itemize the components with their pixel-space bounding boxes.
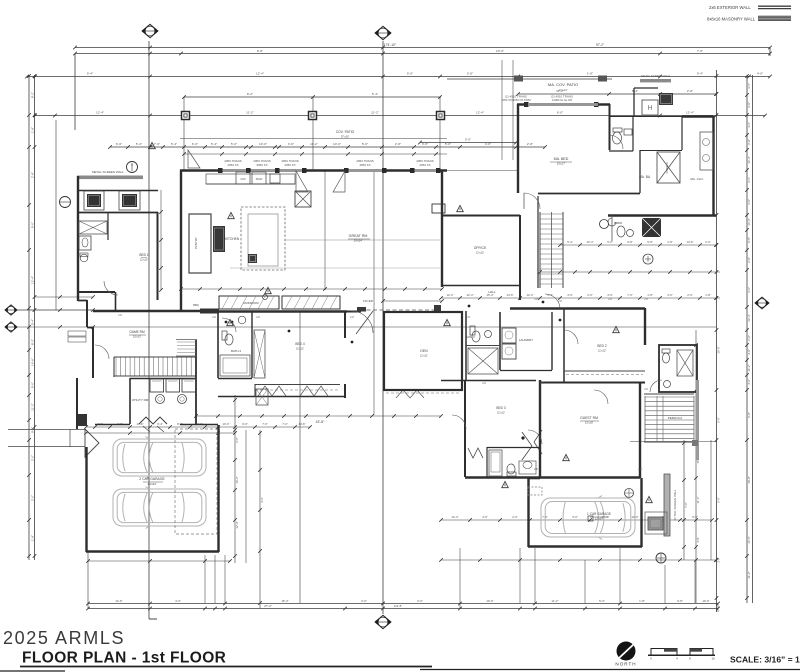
svg-text:6'-0": 6'-0" (747, 139, 751, 145)
svg-text:MA. BED: MA. BED (554, 157, 569, 161)
svg-text:11'-2": 11'-2" (246, 111, 254, 115)
svg-text:6'-0": 6'-0" (192, 142, 198, 146)
svg-text:3'-0": 3'-0" (417, 599, 423, 603)
svg-text:4'-6": 4'-6" (260, 497, 264, 503)
svg-text:9'-8": 9'-8" (677, 599, 683, 603)
svg-text:5'-0": 5'-0" (231, 142, 237, 146)
svg-text:7'-0": 7'-0" (627, 293, 633, 297)
svg-text:174'-10": 174'-10" (384, 43, 397, 47)
svg-text:12'-4": 12'-4" (747, 156, 751, 163)
svg-text:2-8: 2-8 (212, 315, 216, 319)
svg-text:2'-0": 2'-0" (31, 495, 35, 501)
svg-text:37'x10': 37'x10' (341, 135, 350, 139)
svg-text:5'-0": 5'-0" (692, 515, 698, 519)
svg-text:12'-4": 12'-4" (686, 111, 694, 115)
svg-text:12'-4": 12'-4" (476, 111, 484, 115)
svg-text:9'-8": 9'-8" (257, 49, 263, 53)
svg-text:LAUNDRY: LAUNDRY (519, 338, 533, 342)
svg-text:12'-4": 12'-4" (586, 240, 593, 244)
svg-text:7'-0": 7'-0" (684, 502, 688, 508)
svg-text:FOYER: FOYER (363, 299, 373, 303)
svg-text:11'x12': 11'x12' (296, 347, 304, 351)
svg-text:1'-8": 1'-8" (639, 599, 645, 603)
svg-text:11'-2": 11'-2" (747, 364, 751, 371)
svg-text:2'-0": 2'-0" (687, 293, 693, 297)
svg-text:36 TALL SCREEN WALL: 36 TALL SCREEN WALL (673, 489, 677, 520)
svg-text:H: H (647, 105, 652, 112)
svg-text:3'-6": 3'-6" (422, 142, 428, 146)
svg-text:6'-0": 6'-0" (235, 437, 239, 443)
svg-text:KITCHEN: KITCHEN (225, 237, 240, 241)
svg-text:12'-4": 12'-4" (96, 111, 104, 115)
svg-text:4'-0": 4'-0" (747, 349, 751, 355)
svg-text:2-8: 2-8 (540, 381, 544, 385)
svg-text:1'-8": 1'-8" (31, 535, 35, 541)
svg-text:(2) 4010 TRANS: (2) 4010 TRANS (551, 95, 573, 99)
svg-text:15'-4": 15'-4" (281, 599, 288, 603)
svg-text:METAL SCREEN WALL: METAL SCREEN WALL (641, 74, 671, 78)
svg-text:11'x12': 11'x12' (476, 251, 485, 255)
svg-text:DEN: DEN (420, 349, 428, 353)
svg-text:2-8: 2-8 (350, 315, 354, 319)
svg-text:7'-0": 7'-0" (154, 142, 160, 146)
svg-text:10'-0": 10'-0" (702, 599, 709, 603)
svg-text:1'-8": 1'-8" (587, 72, 593, 76)
svg-text:12'-4": 12'-4" (256, 72, 264, 76)
svg-text:BED 4: BED 4 (295, 342, 304, 346)
svg-text:5'-4": 5'-4" (171, 142, 177, 146)
svg-text:5'-0": 5'-0" (445, 142, 451, 146)
svg-text:5'-0": 5'-0" (31, 382, 35, 388)
svg-text:17'x12': 17'x12' (558, 88, 568, 92)
svg-text:2'-0": 2'-0" (31, 455, 35, 461)
svg-text:9'-8": 9'-8" (647, 240, 653, 244)
svg-text:3'-6": 3'-6" (607, 293, 613, 297)
svg-text:5'-4": 5'-4" (136, 142, 142, 146)
svg-text:2-8: 2-8 (608, 297, 612, 301)
svg-text:5'-4": 5'-4" (567, 240, 573, 244)
svg-text:2025 ARMLS: 2025 ARMLS (3, 628, 125, 648)
svg-text:4'-0": 4'-0" (757, 72, 763, 76)
svg-text:4'-6": 4'-6" (747, 122, 751, 128)
svg-text:4'-6": 4'-6" (747, 379, 751, 385)
svg-text:6'-0": 6'-0" (242, 422, 248, 426)
svg-text:2-8: 2-8 (256, 315, 260, 319)
svg-text:4050 FX: 4050 FX (284, 163, 295, 167)
svg-text:11'x12': 11'x12' (598, 349, 606, 353)
svg-text:2x6 EXTERIOR WALL: 2x6 EXTERIOR WALL (709, 5, 751, 10)
svg-text:11'-2": 11'-2" (696, 497, 700, 504)
svg-text:14'-6": 14'-6" (506, 293, 513, 297)
svg-text:12'-4": 12'-4" (451, 515, 458, 519)
svg-text:2'-8": 2'-8" (527, 142, 533, 146)
svg-text:3'-6": 3'-6" (747, 287, 751, 293)
svg-text:O/W: O/W (240, 177, 246, 181)
svg-text:5'-0": 5'-0" (599, 599, 605, 603)
svg-text:5'-0": 5'-0" (572, 515, 578, 519)
svg-text:5'-4": 5'-4" (157, 422, 163, 426)
svg-text:BED 3: BED 3 (496, 406, 505, 410)
svg-text:11'-2": 11'-2" (371, 111, 379, 115)
svg-text:NORTH: NORTH (615, 662, 636, 667)
svg-text:5'-4": 5'-4" (211, 142, 217, 146)
svg-text:6'-0": 6'-0" (557, 111, 563, 115)
svg-text:5'-4": 5'-4" (87, 72, 93, 76)
svg-text:5'-4": 5'-4" (697, 72, 703, 76)
svg-text:3'-6": 3'-6" (747, 83, 751, 89)
svg-text:5'-4": 5'-4" (31, 319, 35, 325)
svg-text:2'-0": 2'-0" (705, 240, 711, 244)
svg-text:2'-8": 2'-8" (687, 89, 693, 93)
svg-text:14'-6": 14'-6" (686, 240, 693, 244)
svg-text:MA. BA.: MA. BA. (639, 175, 651, 179)
svg-text:GUEST RM: GUEST RM (580, 416, 598, 420)
svg-text:2'-8": 2'-8" (467, 72, 473, 76)
svg-text:MA. CLO.: MA. CLO. (690, 177, 703, 181)
svg-text:MA. COV. PATIO: MA. COV. PATIO (548, 82, 578, 87)
svg-text:11'x11': 11'x11' (420, 354, 428, 358)
svg-text:4050 FX: 4050 FX (359, 163, 370, 167)
svg-text:36GR: 36GR (256, 177, 263, 181)
svg-text:4'-0": 4'-0" (747, 199, 751, 205)
svg-text:COV. PATIO: COV. PATIO (336, 130, 355, 134)
svg-text:27'-2": 27'-2" (264, 604, 272, 608)
svg-text:2'-8": 2'-8" (31, 172, 35, 178)
svg-text:5'-0": 5'-0" (465, 138, 471, 142)
svg-text:2-8: 2-8 (638, 467, 642, 471)
svg-text:FLOOR PLAN - 1st FLOOR: FLOOR PLAN - 1st FLOOR (22, 650, 226, 667)
svg-text:5'-0": 5'-0" (407, 72, 413, 76)
svg-text:11'x12': 11'x12' (497, 411, 505, 415)
svg-text:10'-0": 10'-0" (486, 599, 493, 603)
svg-text:6'-0": 6'-0" (116, 142, 122, 146)
svg-text:9'-8": 9'-8" (747, 237, 751, 243)
svg-text:MUDROOM: MUDROOM (243, 301, 259, 305)
svg-text:97'-2": 97'-2" (596, 43, 604, 47)
svg-text:11'x12': 11'x12' (140, 258, 148, 262)
svg-text:BBQ: BBQ (193, 303, 198, 307)
svg-text:1'-8": 1'-8" (705, 293, 711, 297)
svg-text:UTILITY RM: UTILITY RM (132, 398, 149, 402)
svg-text:5'-0": 5'-0" (31, 222, 35, 228)
svg-text:HALL: HALL (489, 290, 496, 294)
svg-text:GAME RM: GAME RM (129, 330, 145, 334)
svg-text:2-8: 2-8 (558, 299, 562, 303)
svg-text:12'-4": 12'-4" (526, 293, 533, 297)
svg-text:10'-0": 10'-0" (235, 476, 239, 483)
svg-text:5'-4": 5'-4" (372, 92, 378, 96)
svg-text:2-8: 2-8 (118, 313, 122, 317)
svg-text:PANTRY: PANTRY (194, 237, 198, 249)
svg-text:10'-0": 10'-0" (496, 49, 504, 53)
svg-text:4'-6": 4'-6" (485, 142, 491, 146)
svg-text:12'-4": 12'-4" (235, 521, 239, 528)
svg-text:113'-8": 113'-8" (394, 604, 402, 608)
svg-text:2'-0": 2'-0" (747, 257, 751, 263)
svg-text:BED 2: BED 2 (597, 344, 606, 348)
svg-text:3'-0": 3'-0" (667, 293, 673, 297)
svg-text:6'-0": 6'-0" (717, 497, 721, 503)
svg-text:5'-0": 5'-0" (362, 142, 368, 146)
svg-text:12'-4": 12'-4" (31, 276, 35, 284)
svg-text:2'-8": 2'-8" (395, 142, 401, 146)
svg-text:4050 XO/4050 OX TRIM: 4050 XO/4050 OX TRIM (501, 98, 531, 102)
svg-text:9'-8": 9'-8" (627, 240, 633, 244)
svg-text:14'-6": 14'-6" (747, 218, 751, 225)
svg-text:PWDR: PWDR (614, 221, 622, 225)
svg-text:4050 FX: 4050 FX (227, 163, 238, 167)
svg-text:2-8: 2-8 (482, 381, 486, 385)
svg-text:12'-4": 12'-4" (446, 293, 453, 297)
svg-text:5'-4": 5'-4" (632, 89, 638, 93)
svg-text:1'-8": 1'-8" (667, 240, 673, 244)
svg-text:14'-6": 14'-6" (298, 422, 305, 426)
svg-text:4050 FX: 4050 FX (419, 163, 430, 167)
svg-text:(2) 4010 TRANS: (2) 4010 TRANS (505, 95, 527, 99)
svg-text:SCALE: 3/16" = 1'-0: SCALE: 3/16" = 1'-0 (730, 655, 800, 665)
svg-text:6'-0": 6'-0" (717, 417, 721, 423)
svg-text:12080 SL GL DR: 12080 SL GL DR (552, 98, 572, 102)
svg-text:PERGOLA: PERGOLA (668, 416, 683, 420)
svg-text:BATH 4: BATH 4 (231, 349, 241, 353)
svg-text:10'-0": 10'-0" (747, 476, 751, 483)
svg-text:SHOWER: SHOWER (666, 162, 669, 173)
svg-text:3'-6": 3'-6" (747, 177, 751, 183)
svg-text:2-8: 2-8 (644, 297, 648, 301)
svg-text:10'-0": 10'-0" (717, 346, 721, 353)
svg-text:16: 16 (711, 657, 715, 661)
svg-text:METAL SCREEN WALL: METAL SCREEN WALL (92, 170, 124, 174)
svg-text:12'-4": 12'-4" (747, 314, 751, 321)
svg-text:OFFICE: OFFICE (474, 246, 487, 250)
svg-text:4'-6": 4'-6" (482, 515, 488, 519)
svg-text:10'-0": 10'-0" (222, 422, 229, 426)
svg-text:2'-0": 2'-0" (512, 515, 518, 519)
svg-text:2-8: 2-8 (644, 387, 648, 391)
svg-text:BATH 3: BATH 3 (465, 335, 475, 339)
svg-text:6'-0": 6'-0" (747, 102, 751, 108)
svg-text:2 CAR GARAGE: 2 CAR GARAGE (139, 477, 165, 481)
svg-text:12'-4": 12'-4" (466, 293, 473, 297)
svg-text:1'-8": 1'-8" (31, 127, 35, 133)
svg-text:4'-6": 4'-6" (175, 599, 181, 603)
svg-text:11'-2": 11'-2" (747, 571, 751, 578)
svg-text:8'-2": 8'-2" (247, 92, 253, 96)
svg-text:8'-2": 8'-2" (31, 92, 35, 98)
svg-text:1'-8": 1'-8" (647, 293, 653, 297)
svg-text:8'-2": 8'-2" (31, 339, 35, 345)
svg-text:2-8: 2-8 (534, 467, 538, 471)
svg-text:43'-8": 43'-8" (316, 420, 325, 424)
svg-text:3'-6": 3'-6" (567, 293, 573, 297)
svg-text:BED 1: BED 1 (139, 253, 148, 257)
svg-text:7'-0": 7'-0" (262, 422, 268, 426)
svg-text:3'-0": 3'-0" (717, 557, 721, 563)
svg-text:1'-8": 1'-8" (696, 537, 700, 543)
svg-text:11'-2": 11'-2" (310, 142, 318, 146)
svg-text:2'-0": 2'-0" (587, 293, 593, 297)
svg-text:2-8: 2-8 (466, 315, 470, 319)
svg-text:10'-0": 10'-0" (259, 142, 267, 146)
svg-text:8x8x16 MASONRY WALL: 8x8x16 MASONRY WALL (707, 17, 756, 22)
svg-text:9'-8": 9'-8" (31, 427, 35, 433)
svg-text:9'-8": 9'-8" (747, 412, 751, 418)
svg-text:3'-6": 3'-6" (361, 599, 367, 603)
svg-text:3'-6": 3'-6" (288, 142, 294, 146)
svg-text:11'-2": 11'-2" (31, 403, 35, 411)
svg-text:2-8: 2-8 (534, 297, 538, 301)
svg-text:4050 FX: 4050 FX (256, 163, 267, 167)
svg-text:1 CAR GARAGE: 1 CAR GARAGE (587, 512, 611, 516)
svg-text:21'x23': 21'x23' (148, 482, 157, 486)
svg-text:GREAT RM: GREAT RM (349, 234, 368, 238)
svg-text:7'-0": 7'-0" (282, 422, 288, 426)
svg-text:14'-6": 14'-6" (115, 599, 122, 603)
svg-text:11'-2": 11'-2" (551, 599, 558, 603)
svg-text:14'-6": 14'-6" (31, 358, 35, 366)
svg-text:10'-0": 10'-0" (333, 142, 341, 146)
svg-text:2'-8": 2'-8" (747, 335, 751, 341)
svg-text:7'-0": 7'-0" (697, 49, 703, 53)
svg-text:14'-6": 14'-6" (747, 536, 751, 543)
